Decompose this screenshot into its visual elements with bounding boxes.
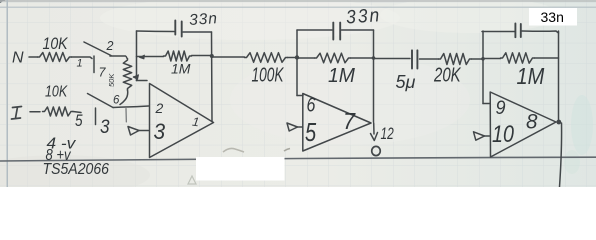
op-amp U3 triangle	[490, 92, 556, 157]
feedback top wire U2 right segment	[342, 29, 374, 31]
capacitor C4 33n left plate	[514, 24, 516, 38]
feedback top wire right segment	[183, 31, 212, 33]
svg-text:12: 12	[381, 125, 394, 144]
op-amp U2 triangle	[303, 94, 371, 152]
wire R6 to U3 summing node	[472, 58, 484, 60]
svg-text:N: N	[12, 50, 24, 67]
svg-text:10: 10	[492, 120, 515, 147]
svg-text:1M: 1M	[517, 63, 545, 90]
feedback top wire U3 left segment	[482, 31, 515, 33]
svg-text:1M: 1M	[328, 65, 356, 87]
stub to U3 pin 9 input	[483, 103, 490, 105]
wire U2 node to C3	[374, 58, 410, 60]
wire R5 to U2 output node	[351, 57, 374, 59]
wire R2 to switch S2	[73, 112, 81, 113]
paper tonal variation	[100, 0, 400, 40]
resistor R7 1M (U3 feedback)	[501, 53, 535, 63]
wire U2 output down to pin 12 terminal	[373, 123, 375, 134]
svg-text:1M: 1M	[171, 61, 191, 77]
stray pen stroke below node	[125, 109, 127, 123]
feedback top wire left segment	[137, 30, 175, 33]
trimmer pot RV1 body	[123, 59, 131, 91]
svg-text:50K: 50K	[107, 73, 116, 87]
capacitor C1 33n left plate	[174, 21, 176, 35]
wire U1 out to R4	[212, 56, 245, 58]
switch S2 arm	[88, 94, 114, 108]
wire R4 to U2 summing node	[288, 57, 298, 59]
capacitor C2 33n right plate	[339, 23, 341, 40]
svg-text:10K: 10K	[43, 35, 69, 53]
svg-text:8: 8	[526, 110, 538, 133]
svg-text:7: 7	[99, 66, 107, 80]
feedback top wire U3 right segment	[522, 31, 559, 33]
wire U2 summing to R5	[297, 57, 315, 59]
ground arrow at U2 pin 5	[298, 126, 303, 128]
switch S1 contact bar	[93, 56, 95, 73]
scan corner mark	[0, 0, 6, 3]
op-amp U1 triangle	[150, 84, 214, 158]
U3 output vertical (feedback side)	[558, 31, 560, 122]
svg-text:33n: 33n	[189, 10, 219, 29]
label I (input node I)	[12, 107, 22, 120]
node U2 output junction	[372, 56, 376, 60]
svg-text:10K: 10K	[45, 83, 68, 101]
svg-text:5μ: 5μ	[396, 72, 416, 92]
svg-text:33n: 33n	[541, 9, 564, 25]
ground arrow at U1 pin 3	[139, 130, 149, 132]
node U3 summing junction	[481, 57, 485, 61]
capacitor C1 33n right plate	[181, 22, 183, 37]
heavy horizontal rule near bottom	[0, 157, 596, 161]
wire node6 to op-amp U1 input	[113, 106, 149, 108]
resistor R5 1M (U2 feedback)	[315, 53, 351, 63]
white patch (top right)	[529, 8, 577, 26]
output wire down to bottom edge	[560, 123, 562, 187]
svg-text:3: 3	[100, 116, 110, 137]
U1 output vertical	[211, 32, 214, 122]
stub to U2 top corner	[297, 95, 303, 97]
faint erased pencil marks	[223, 148, 244, 152]
svg-text:5: 5	[305, 117, 316, 146]
cyan scan blotch right	[571, 95, 593, 155]
wire U3 summing to R7	[483, 58, 501, 60]
node U1 output junction	[210, 54, 214, 58]
stub to U1 top corner	[137, 80, 148, 82]
left margin rule	[6, 0, 8, 187]
node U3 output junction	[556, 120, 561, 125]
capacitor C2 33n left plate	[332, 23, 334, 40]
svg-text:9: 9	[496, 97, 506, 119]
svg-text:6: 6	[113, 95, 120, 107]
wire R3 to output node	[192, 55, 212, 57]
white patch (bottom annotation cover)	[196, 157, 285, 181]
switch S2 contact bar	[95, 108, 97, 125]
svg-text:2: 2	[106, 39, 114, 53]
svg-text:7: 7	[343, 108, 357, 134]
wire summing to R3	[137, 56, 164, 58]
resistor R3 1M (U1 feedback)	[164, 51, 192, 61]
switch S1 arm	[84, 42, 111, 56]
pot RV1 wiper arrow	[134, 77, 137, 78]
svg-text:TS5A2066: TS5A2066	[43, 160, 110, 178]
node U2 summing junction	[295, 55, 299, 59]
feedback top wire U2 left segment	[297, 29, 332, 31]
darker top margin rule	[0, 6, 596, 8]
svg-text:3: 3	[154, 120, 166, 145]
svg-text:20K: 20K	[433, 63, 462, 86]
U2 output vertical	[373, 30, 375, 122]
resistor R6 20K	[439, 54, 472, 65]
wire node2 to pot top	[110, 56, 127, 58]
wire N to R1	[29, 56, 38, 58]
wire R1 to switch S1	[72, 57, 93, 59]
U2 summing vertical	[296, 30, 298, 96]
svg-text:1: 1	[77, 58, 83, 70]
svg-text:2: 2	[155, 100, 164, 116]
resistor R1 10K	[38, 53, 72, 62]
feedback left vertical (U1 summing)	[136, 31, 138, 81]
capacitor C4 33n right plate	[520, 24, 522, 37]
wire pot bottom to node 6	[120, 90, 128, 105]
ground arrow at U3 pin 10	[485, 135, 491, 137]
paper background	[0, 0, 596, 187]
capacitor C3 5u left plate	[411, 50, 413, 68]
arrowhead down (pin 12)	[371, 133, 378, 141]
wire C3 to R6	[420, 58, 439, 60]
open terminal circle (pin 12)	[372, 146, 381, 155]
svg-text:33n: 33n	[345, 3, 382, 27]
svg-text:6: 6	[307, 94, 317, 116]
top scan edge line	[0, 0, 596, 2]
junction tick on summing wire	[140, 55, 145, 59]
wire R7 to U3 output node	[535, 57, 559, 59]
resistor R4 100K	[245, 53, 288, 63]
wire I to R2	[30, 111, 40, 113]
resistor R2 10K	[43, 107, 73, 116]
capacitor C3 5u right plate	[416, 50, 418, 68]
U3 summing vertical	[482, 31, 484, 104]
svg-text:100K: 100K	[252, 63, 285, 86]
svg-text:5: 5	[75, 112, 83, 131]
